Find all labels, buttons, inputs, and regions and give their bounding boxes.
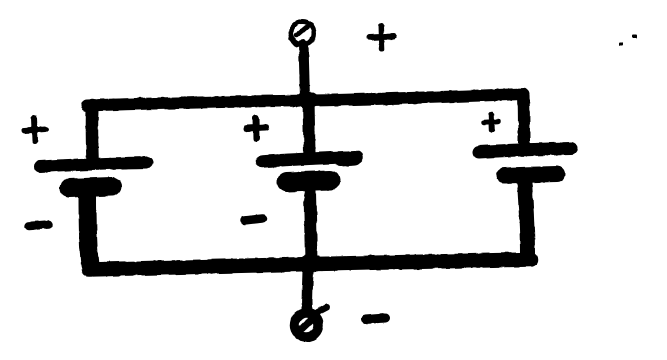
wire: left cell negative plate down to bottom bus [88, 196, 91, 265]
label: - polarity of left cell [29, 225, 49, 227]
label: - polarity of middle cell [244, 219, 263, 221]
battery cell (right): negative plate (short, thick) [504, 174, 557, 176]
junction: center lead meets bottom bus [299, 254, 323, 272]
negative terminal (bottom, ring with slash) [295, 307, 328, 337]
wire: bottom bus (horizontal) [89, 260, 531, 270]
label: - polarity of bottom terminal [366, 318, 386, 320]
wire: middle cell negative plate down to bottom bus [310, 191, 312, 262]
label: + polarity of middle cell [247, 118, 266, 139]
battery cell (left): negative plate (short, thick) [69, 187, 112, 189]
label: + polarity of left cell [25, 118, 46, 141]
junction: center lead meets top bus [296, 92, 320, 109]
wire: right branch from top bus down to right cell [518, 95, 531, 146]
wire: top bus (horizontal) [87, 94, 524, 106]
positive terminal (top, open circle with slash) [291, 22, 314, 45]
battery cell (middle): negative plate (short, thick) [287, 181, 330, 183]
battery cell (right): positive plate (long) [479, 149, 571, 153]
wire: right cell negative plate down to bottom bus [525, 181, 528, 253]
wire: left branch from top bus down to left cell [86, 105, 99, 158]
label: + polarity of top terminal [370, 26, 394, 50]
wire: center lead from top bus down to middle cell [309, 100, 310, 153]
wire: vertical lead from positive terminal to top bus [304, 44, 306, 99]
label: + polarity of right cell [485, 114, 499, 130]
stray ink specks (scan noise) [619, 34, 637, 46]
battery cell (left): positive plate (long) [40, 163, 147, 167]
battery cell (middle): positive plate (long) [262, 157, 357, 162]
wire: lead from bottom bus down to negative terminal [307, 271, 308, 310]
